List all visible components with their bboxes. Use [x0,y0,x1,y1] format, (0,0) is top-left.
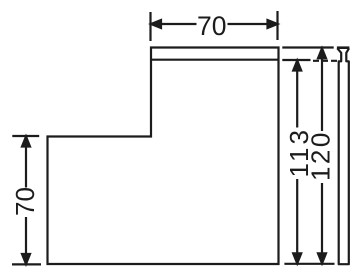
extension line left-top (y=136) [12,135,39,137]
extension line left-bottom (y=264.4) [12,263,41,265]
extension line right for 113 (y=60, solid then dashed to profile) [282,59,337,62]
extension line top-left (x=151) [149,12,151,41]
svg-text:120: 120 [306,130,336,181]
panel side profile (right cross-section) [337,48,350,265]
extension line right-top for 120 (y=47.5) [282,46,333,48]
dimension line 113 [293,61,301,264]
dimension line 70 left [22,137,30,265]
extension line right-bottom shared (y=263.8) [284,263,334,265]
extension line top-right (x=277.5) [276,11,278,40]
panel front view outline [48,48,279,265]
svg-text:70: 70 [10,187,40,216]
dimension line 70 top [151,20,278,28]
dimension line 120 [318,48,326,263]
svg-text:70: 70 [197,11,226,41]
panel top flange inner line [151,59,279,61]
